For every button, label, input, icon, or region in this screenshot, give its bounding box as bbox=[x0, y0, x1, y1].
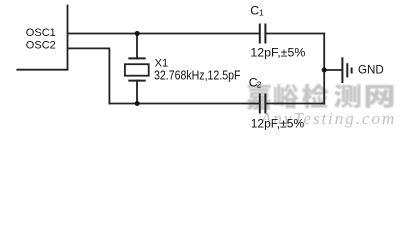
svg-text:GND: GND bbox=[358, 62, 384, 76]
ground bar long bbox=[341, 58, 343, 82]
crystal X1 body bbox=[125, 64, 149, 76]
watermark char 峪 bbox=[274, 84, 298, 109]
wire C1 to corner bbox=[265, 33, 324, 35]
crystal X1 bottom stub bbox=[136, 81, 138, 104]
wire GND stub bbox=[324, 69, 341, 71]
capacitor C2 plates bbox=[260, 95, 266, 113]
svg-text:2: 2 bbox=[257, 79, 262, 89]
svg-text:12pF,±5%: 12pF,±5% bbox=[250, 45, 305, 59]
wire right vertical bbox=[323, 34, 325, 104]
svg-text:OSC2: OSC2 bbox=[26, 39, 56, 51]
watermark 嘉峪检测网 bbox=[247, 83, 394, 110]
svg-text:12pF,±5%: 12pF,±5% bbox=[251, 116, 305, 130]
svg-text:C: C bbox=[250, 4, 259, 18]
svg-text:OSC1: OSC1 bbox=[26, 27, 56, 39]
junction node OSC2/X1 bbox=[135, 101, 140, 106]
watermark char 检 bbox=[302, 83, 328, 108]
crystal X1 bottom plate bbox=[129, 80, 144, 82]
IC box bottom edge bbox=[17, 69, 67, 71]
ground bar mid bbox=[346, 64, 348, 76]
IC box right edge bbox=[67, 6, 69, 70]
watermark char 嘉 bbox=[247, 84, 271, 110]
svg-text:32.768kHz,12.5pF: 32.768kHz,12.5pF bbox=[154, 68, 241, 82]
wire C2 to corner bbox=[265, 103, 324, 105]
svg-text:1: 1 bbox=[259, 7, 264, 17]
capacitor C1 plates bbox=[260, 25, 266, 43]
ground bar short bbox=[351, 69, 353, 73]
crystal X1 top plate bbox=[129, 57, 144, 59]
junction node GND bbox=[322, 68, 327, 73]
wire OSC2 step bbox=[68, 48, 109, 103]
watermark char 网 bbox=[366, 85, 394, 108]
watermark char 测 bbox=[334, 84, 361, 108]
junction node OSC1/X1 bbox=[135, 31, 140, 36]
wire OSC1 bbox=[68, 33, 259, 35]
wire bottom bbox=[109, 103, 259, 105]
crystal X1 top stub bbox=[136, 34, 138, 59]
